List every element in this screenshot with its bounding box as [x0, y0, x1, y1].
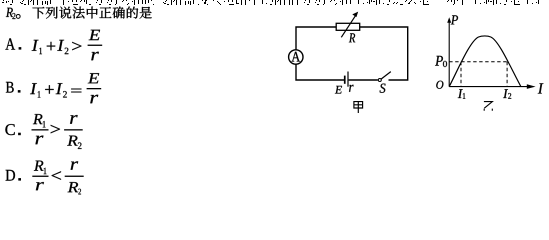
figure label 乙	[484, 102, 493, 111]
battery E,r (short and long plates)	[344, 72, 349, 87]
label I1	[458, 89, 466, 98]
ammeter A	[289, 50, 303, 64]
label E (emf)	[335, 86, 342, 94]
wire: left lower and bottom-left segment	[296, 64, 344, 80]
label I2	[503, 89, 511, 98]
wire: bottom middle segment	[349, 79, 378, 81]
label r (internal resistance)	[349, 85, 353, 92]
power curve P-I	[449, 36, 521, 87]
label R (rheostat value)	[349, 33, 355, 42]
dashed horizontal at P0	[449, 61, 507, 63]
option C: R1/r > r/R2	[5, 114, 82, 149]
switch S (open)	[378, 72, 391, 82]
figure label 甲	[354, 102, 363, 113]
rheostat R (variable resistor, arrow through box)	[336, 12, 360, 38]
label P (y-axis)	[451, 15, 458, 24]
option B: I1+I2 = E/r	[6, 73, 101, 103]
label S (switch)	[380, 84, 386, 93]
text line: R2。下列说法中正确的是	[6, 7, 152, 19]
wire: top and right side of loop	[296, 27, 408, 80]
graph x-axis with arrow	[449, 84, 535, 89]
label O (origin)	[436, 81, 443, 89]
graph y-axis with arrow	[447, 17, 451, 86]
dashed vertical at I2	[506, 62, 508, 87]
option D: R1/r < r/R2	[6, 161, 84, 195]
cropped previous text line (glyph bottoms only)	[2, 1, 539, 5]
option A: I1+I2 > E/r	[5, 30, 102, 60]
dashed vertical at I1	[460, 62, 462, 87]
label I (x-axis)	[538, 83, 544, 93]
label P0	[435, 56, 447, 67]
